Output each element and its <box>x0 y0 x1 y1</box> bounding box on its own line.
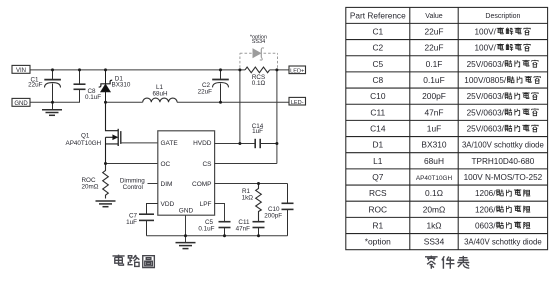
svg-text:1uF: 1uF <box>126 219 137 226</box>
label R1 value <box>242 188 254 202</box>
svg-text:C5: C5 <box>372 59 383 69</box>
svg-text:Q7: Q7 <box>372 172 384 182</box>
label option SS34 <box>250 34 267 45</box>
label C7 value <box>126 212 137 226</box>
wire RCS right to LED+ <box>270 69 289 71</box>
svg-text:20mΩ: 20mΩ <box>82 183 99 190</box>
node switch rail / D1 anode <box>104 101 107 104</box>
svg-text:100V/: 100V/ <box>475 28 497 37</box>
capacitor C7 <box>139 204 158 236</box>
capacitor C14 (series) <box>255 139 277 148</box>
svg-text:GND: GND <box>179 207 194 214</box>
wire gate to IC GATE pin <box>121 142 158 144</box>
wire CS/LED+ branch vertical x=276.9 <box>276 70 278 164</box>
svg-text:COMP: COMP <box>192 181 212 188</box>
wire switch-node rail to LED- (left of L1) <box>106 101 143 103</box>
svg-text:C1: C1 <box>372 27 383 37</box>
label C11 value <box>236 219 251 233</box>
svg-text:68uH: 68uH <box>152 91 168 98</box>
node agnd / C11 <box>257 234 260 237</box>
LED+ terminal box <box>289 66 306 74</box>
ground symbol at IC <box>176 243 196 249</box>
svg-text:VDD: VDD <box>161 201 175 208</box>
svg-text:R1: R1 <box>372 221 383 231</box>
junction dots <box>51 68 278 237</box>
svg-text:OC: OC <box>161 161 171 168</box>
label C5 value <box>198 219 214 233</box>
capacitor C8 <box>74 70 86 102</box>
wire HVDD branch vertical x=240 <box>239 70 241 144</box>
diode D1 (schottky BX310) <box>99 70 113 102</box>
svg-text:1206/: 1206/ <box>475 189 496 198</box>
node top rail / C2 <box>219 68 222 71</box>
svg-text:0.1uF: 0.1uF <box>198 226 214 233</box>
title parts list (ling-jian-biao) <box>425 256 469 269</box>
node GND rail / C1 <box>51 101 54 104</box>
svg-text:RCS: RCS <box>369 188 387 198</box>
node COMP / R1 <box>257 182 260 185</box>
node agnd / gnd stem <box>184 234 187 237</box>
svg-text:VIN: VIN <box>16 68 26 74</box>
capacitor C2 (electrolytic) <box>212 70 229 102</box>
label D1 value <box>112 75 131 88</box>
wire top rail VIN net <box>30 69 245 71</box>
svg-text:SS34: SS34 <box>424 237 445 247</box>
label C1 value <box>28 76 43 88</box>
label L1 value <box>152 84 168 97</box>
svg-text:47nF: 47nF <box>236 226 251 233</box>
ground symbol at C1 <box>42 102 62 115</box>
svg-text:C2: C2 <box>372 43 383 53</box>
label dimming control <box>120 177 145 191</box>
node top rail / C8 <box>78 68 81 71</box>
svg-text:0.1uF: 0.1uF <box>423 75 444 85</box>
svg-text:100V/0805/: 100V/0805/ <box>464 76 507 85</box>
svg-text:BX310: BX310 <box>421 140 446 150</box>
svg-text:68uH: 68uH <box>424 156 444 166</box>
resistor R1 <box>256 184 262 222</box>
node source / ROC / OC <box>104 162 107 165</box>
resistor RCS <box>245 67 270 73</box>
svg-text:Description: Description <box>485 13 520 20</box>
capacitor C5 <box>219 222 231 236</box>
node C14 / CS branch <box>275 142 278 145</box>
node agnd / C5 <box>223 234 226 237</box>
svg-text:100V/: 100V/ <box>475 44 497 53</box>
wire COMP to C10 <box>215 183 288 185</box>
svg-text:*option: *option <box>365 237 391 247</box>
svg-text:D1: D1 <box>372 140 383 150</box>
table header <box>350 10 521 20</box>
label ROC value <box>82 177 99 191</box>
svg-text:0.1Ω: 0.1Ω <box>425 188 443 198</box>
svg-text:Q1: Q1 <box>81 133 90 140</box>
resistor ROC <box>103 164 109 199</box>
svg-text:AP40T10GH: AP40T10GH <box>66 140 102 147</box>
label C2 value <box>198 82 213 96</box>
svg-text:22uF: 22uF <box>424 27 443 37</box>
svg-text:200pF: 200pF <box>422 91 446 101</box>
svg-text:25V/0603/: 25V/0603/ <box>467 125 505 134</box>
capacitor C11 <box>253 222 265 236</box>
svg-text:22uF: 22uF <box>424 43 443 53</box>
parts table grid <box>346 7 548 249</box>
node RCS right / LED+ <box>275 68 278 71</box>
svg-text:200pF: 200pF <box>264 212 282 219</box>
svg-text:0603/: 0603/ <box>475 222 496 231</box>
svg-text:LED+: LED+ <box>290 68 304 74</box>
node top rail / C1 <box>51 68 54 71</box>
svg-text:0.1F: 0.1F <box>426 59 443 69</box>
VIN terminal box <box>12 65 30 74</box>
ground symbol at ROC <box>96 201 116 207</box>
wire HVDD line <box>215 143 255 145</box>
wire dimming control to DIM pin <box>148 183 158 185</box>
svg-text:22uF: 22uF <box>28 82 43 89</box>
LED- terminal box <box>289 97 306 105</box>
svg-text:HVDD: HVDD <box>193 140 212 147</box>
capacitor C1 (electrolytic) <box>44 70 61 102</box>
wire source node to OC pin <box>106 163 158 165</box>
node top rail / D1 <box>104 68 107 71</box>
wire switch-node rail to LED- (right of L1) <box>177 101 289 103</box>
svg-text:CS: CS <box>202 161 212 168</box>
parts table body <box>365 27 544 247</box>
wire CS line <box>215 163 277 165</box>
svg-text:47nF: 47nF <box>424 107 443 117</box>
node switch rail / C2 <box>219 101 222 104</box>
transistor Q1 (N-MOSFET AP40T10GH) <box>106 102 121 163</box>
diode SS34 optional (gray) <box>253 48 264 60</box>
GND terminal box <box>12 98 30 107</box>
svg-text:SS34: SS34 <box>252 39 265 45</box>
svg-text:Control: Control <box>123 184 143 191</box>
svg-text:GATE: GATE <box>161 140 179 147</box>
label C14 value <box>252 123 264 135</box>
svg-text:20mΩ: 20mΩ <box>423 204 446 214</box>
label RCS value <box>252 74 266 87</box>
svg-text:LPF: LPF <box>200 201 212 208</box>
svg-text:3A/40V schottky diode: 3A/40V schottky diode <box>464 238 542 247</box>
svg-text:L1: L1 <box>373 156 383 166</box>
node top rail / HVDD branch <box>238 68 241 71</box>
svg-text:25V/0603/: 25V/0603/ <box>467 108 505 117</box>
svg-text:TPRH10D40-680: TPRH10D40-680 <box>471 157 534 166</box>
wire GND rail <box>30 101 80 103</box>
svg-text:25V/0603/: 25V/0603/ <box>467 60 505 69</box>
title circuit diagram (dian-lu-tu) <box>112 255 154 268</box>
inductor L1 <box>143 98 177 102</box>
svg-text:C8: C8 <box>372 75 383 85</box>
wire IC GND stem <box>185 215 187 242</box>
label Q1 value <box>66 133 102 147</box>
svg-text:1206/: 1206/ <box>475 205 496 214</box>
svg-text:Value: Value <box>425 13 442 20</box>
capacitor C10 <box>282 184 294 236</box>
wire LPF stub <box>215 204 225 222</box>
svg-text:1uF: 1uF <box>252 128 263 135</box>
svg-text:C11: C11 <box>370 107 385 117</box>
svg-text:25V/0603/: 25V/0603/ <box>467 92 505 101</box>
svg-text:AP40T10GH: AP40T10GH <box>416 175 453 182</box>
svg-text:0.1Ω: 0.1Ω <box>252 80 266 87</box>
svg-text:GND: GND <box>14 101 28 107</box>
svg-text:C10: C10 <box>370 91 386 101</box>
svg-text:DIM: DIM <box>161 181 173 188</box>
svg-text:100V N-MOS/TO-252: 100V N-MOS/TO-252 <box>464 173 543 182</box>
svg-text:C14: C14 <box>370 124 386 134</box>
op-amp/controller IC U1 box <box>158 131 215 215</box>
svg-text:1kΩ: 1kΩ <box>426 221 441 231</box>
node HVDD / x240 <box>238 142 241 145</box>
label C8 value <box>85 88 101 101</box>
svg-text:1uF: 1uF <box>427 124 441 134</box>
option dashed box <box>240 53 278 68</box>
wire analog ground rail <box>147 235 288 237</box>
svg-text:Part Reference: Part Reference <box>350 10 406 20</box>
svg-text:LED-: LED- <box>291 100 304 106</box>
svg-text:3A/100V schottky diode: 3A/100V schottky diode <box>462 141 544 150</box>
svg-text:BX310: BX310 <box>112 82 131 89</box>
svg-text:1kΩ: 1kΩ <box>242 195 254 202</box>
label C10 value <box>264 206 282 219</box>
svg-text:0.1uF: 0.1uF <box>85 94 101 101</box>
svg-text:ROC: ROC <box>368 204 387 214</box>
svg-text:22uF: 22uF <box>198 88 213 95</box>
